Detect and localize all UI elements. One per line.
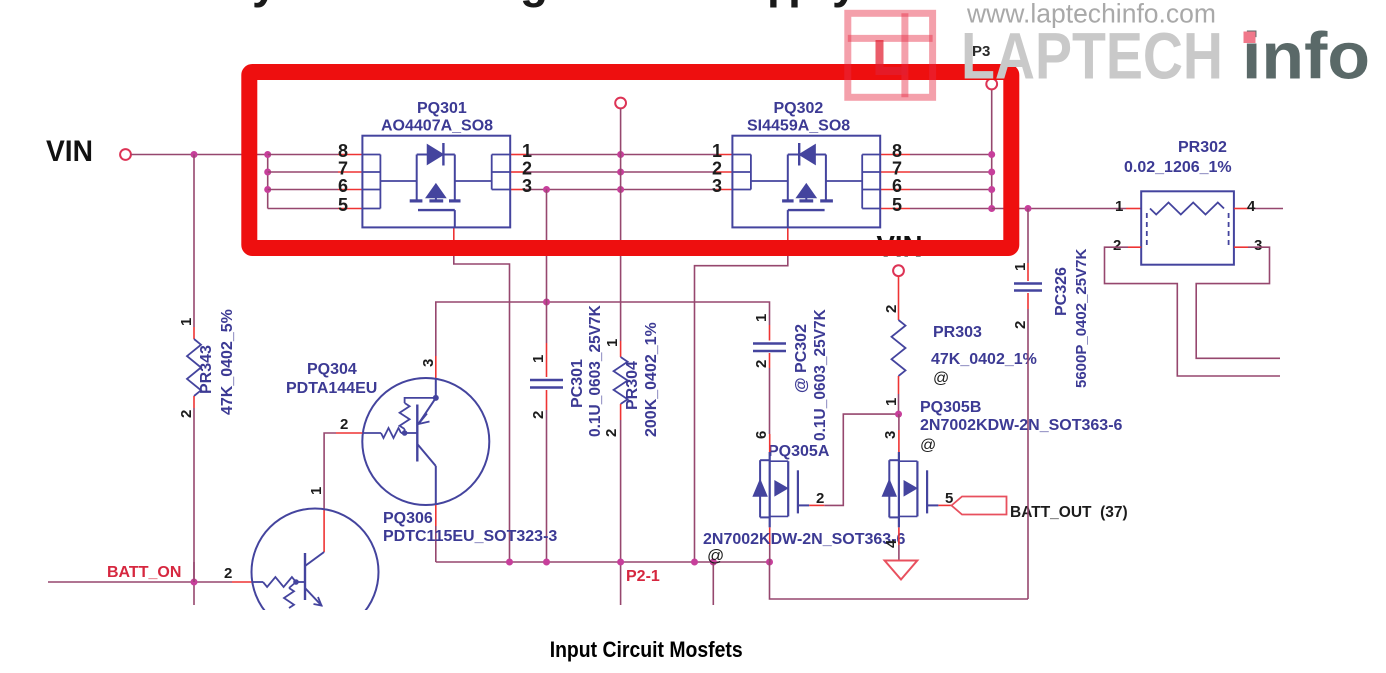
info i-dot pink (1244, 32, 1256, 44)
PQ305A gate lead (809, 504, 824, 506)
left pin fan-out bus (267, 155, 269, 209)
resistor PR302 (1141, 191, 1234, 264)
svg-text:1: 1 (883, 398, 900, 406)
PR302 pin 4 (1234, 208, 1249, 210)
svg-text:VIN: VIN (46, 135, 93, 168)
wire to PQ301 pin 7 (268, 171, 338, 173)
svg-text:2: 2 (1113, 237, 1121, 254)
svg-text:3: 3 (522, 176, 532, 196)
wire to PQ301 pin 5 (268, 208, 338, 210)
wire to PQ301 pin 6 (268, 189, 338, 191)
svg-text:5: 5 (892, 195, 902, 215)
svg-text:3: 3 (420, 359, 437, 367)
mosfet PQ301 AO4407A_SO8 (362, 136, 510, 228)
svg-text:5: 5 (338, 195, 348, 215)
laptech logo mark (848, 13, 933, 97)
svg-text:PDTA144EU: PDTA144EU (286, 380, 377, 397)
svg-text:P2-1: P2-1 (626, 568, 660, 585)
svg-text:2: 2 (1012, 321, 1029, 329)
wire PC302/PQ305A vertical (769, 325, 771, 341)
svg-text:0.1U_0603_25V7K: 0.1U_0603_25V7K (812, 308, 829, 441)
svg-text:PC326: PC326 (1053, 267, 1070, 316)
svg-text:3: 3 (1254, 237, 1262, 254)
svg-text:PR303: PR303 (933, 324, 982, 341)
svg-text:Input Circuit Mosfets: Input Circuit Mosfets (550, 637, 743, 662)
PQ305B pin 4 to ground (898, 527, 900, 545)
svg-text:AO4407A_SO8: AO4407A_SO8 (381, 118, 493, 135)
svg-text:PR302: PR302 (1178, 139, 1227, 156)
wire PR343 vertical net (193, 155, 195, 328)
resistor PR343 (187, 339, 201, 396)
svg-text:2: 2 (340, 416, 348, 433)
bottom wire PQ305A to PC326 (770, 562, 1029, 599)
PQ304 base bar (416, 405, 418, 462)
svg-text:PDTC115EU_SOT323-3: PDTC115EU_SOT323-3 (383, 528, 557, 545)
svg-text:PQ306: PQ306 (383, 510, 433, 527)
svg-text:g: g (520, 0, 548, 8)
wire row5 to PR302 (992, 208, 1126, 210)
PQ305A pin 4 down (769, 527, 771, 545)
svg-text:PQ301: PQ301 (417, 100, 467, 117)
wire PQ304 collector down (435, 505, 437, 526)
svg-text:P3: P3 (972, 43, 990, 60)
svg-text:6: 6 (338, 176, 348, 196)
svg-text:y: y (832, 0, 858, 8)
svg-text:6: 6 (892, 176, 902, 196)
svg-text:2: 2 (883, 305, 900, 313)
PR302 pin 2 path (1128, 246, 1141, 248)
svg-text:2: 2 (178, 410, 195, 418)
svg-text:5600P_0402_25V7K: 5600P_0402_25V7K (1073, 249, 1090, 388)
svg-text:PQ304: PQ304 (307, 361, 357, 378)
capacitor PC326 (1014, 282, 1042, 285)
VIN mid connector circle (893, 265, 904, 276)
svg-text:@: @ (707, 546, 724, 565)
junction VIN/PR343 (191, 151, 198, 158)
wires PQ301 to PQ302 rows 1-3 (510, 154, 526, 156)
wire mid vertical net (through PR304) (620, 109, 622, 342)
svg-text:3: 3 (712, 176, 722, 196)
svg-text:3: 3 (882, 431, 899, 439)
svg-text:2N7002KDW-2N_SOT363-6: 2N7002KDW-2N_SOT363-6 (703, 531, 906, 548)
svg-text:4: 4 (883, 539, 900, 548)
P3 connector circle (986, 79, 997, 90)
svg-text:47K_0402_1%: 47K_0402_1% (931, 351, 1037, 368)
svg-text:47K_0402_5%: 47K_0402_5% (219, 309, 236, 415)
junction PR303/PQ305B (895, 411, 902, 418)
svg-text:1: 1 (178, 318, 195, 326)
transistor PQ304 PDTA144EU (362, 378, 489, 505)
bottom crop mask (0, 610, 1386, 637)
wire VIN horizontal (131, 154, 268, 156)
svg-text:0.02_1206_1%: 0.02_1206_1% (1124, 159, 1232, 176)
mosfet PQ302 SI4459A_SO8 (732, 136, 880, 228)
svg-text:2: 2 (603, 429, 620, 437)
svg-text:2: 2 (224, 565, 232, 582)
PQ304 base resistor (362, 432, 381, 434)
PQ304 emitter with arrow (419, 398, 436, 423)
svg-text:1: 1 (530, 355, 547, 363)
PR302 pin 3 path (1234, 246, 1248, 248)
svg-text:6: 6 (753, 431, 770, 439)
svg-text:@ PC302: @ PC302 (793, 324, 810, 393)
svg-text:4: 4 (1247, 198, 1256, 215)
svg-text:1: 1 (753, 314, 770, 322)
svg-text:1: 1 (1012, 263, 1029, 271)
PQ305B gate lead / pin 5 (938, 504, 951, 506)
svg-text:2: 2 (530, 411, 547, 419)
P2-1 net (436, 561, 770, 563)
svg-text:2: 2 (753, 360, 770, 368)
svg-text:PC301: PC301 (569, 359, 586, 408)
svg-text:y: y (252, 0, 278, 8)
junction PC301 top (543, 299, 550, 306)
wire PQ304 pin2 to PQ306 collector (324, 433, 336, 508)
svg-text:PR304: PR304 (624, 361, 641, 410)
resistor PR304 (614, 357, 628, 404)
svg-text:PQ305A: PQ305A (768, 443, 830, 460)
svg-text:200K_0402_1%: 200K_0402_1% (643, 322, 660, 437)
svg-text:1: 1 (308, 487, 325, 495)
svg-text:1: 1 (1115, 198, 1123, 215)
svg-text:PQ305B: PQ305B (920, 399, 981, 416)
PQ306 collector (305, 552, 324, 566)
svg-text:0.1U_0603_25V7K: 0.1U_0603_25V7K (587, 304, 604, 437)
PQ306 emitter arrow (305, 588, 322, 606)
svg-text:PQ302: PQ302 (774, 100, 824, 117)
VIN connector circle (120, 149, 131, 160)
svg-text:info: info (1242, 19, 1370, 93)
svg-text:LAPTECH: LAPTECH (961, 19, 1223, 93)
svg-text:SI4459A_SO8: SI4459A_SO8 (747, 118, 850, 135)
capacitor PC301 (530, 379, 563, 382)
wire PC326 vertical (1027, 209, 1029, 264)
wire PQ302 gate pin down (787, 228, 789, 244)
PQ306 base bar (304, 553, 306, 600)
junctions mid vertical bus on rows 1-3 (617, 151, 624, 158)
wire PC301 vertical (546, 190, 548, 303)
wire horizontal mid net y302 (436, 302, 770, 340)
svg-text:pp: pp (767, 0, 815, 8)
svg-text:@: @ (933, 370, 949, 387)
BATT_OUT flag (952, 497, 1007, 515)
ground (885, 561, 918, 580)
wire PR303 vertical (898, 276, 900, 320)
capacitor PC302 (753, 342, 786, 345)
PQ306 internal resistor (289, 582, 296, 588)
P3 bus right of PQ302 (880, 154, 910, 156)
wire PQ301 gate pin down (453, 228, 455, 244)
PQ304 collector (417, 444, 436, 466)
wire PQ304 pin3 up (435, 340, 437, 356)
svg-text:1: 1 (604, 339, 621, 347)
svg-text:2: 2 (816, 490, 824, 507)
svg-text:2N7002KDW-2N_SOT363-6: 2N7002KDW-2N_SOT363-6 (920, 417, 1123, 434)
resistor PR303 (892, 320, 906, 376)
svg-text:PR343: PR343 (198, 345, 215, 394)
svg-text:BATT_ON: BATT_ON (107, 564, 181, 581)
PQ304 pin 2 stub (336, 432, 362, 434)
svg-text:@: @ (920, 437, 936, 454)
mid connector circle (615, 98, 626, 109)
wire to PQ301 pin 8 (268, 154, 338, 156)
red highlight box (249, 72, 1011, 248)
junction row3 PC301 tap (543, 186, 550, 193)
